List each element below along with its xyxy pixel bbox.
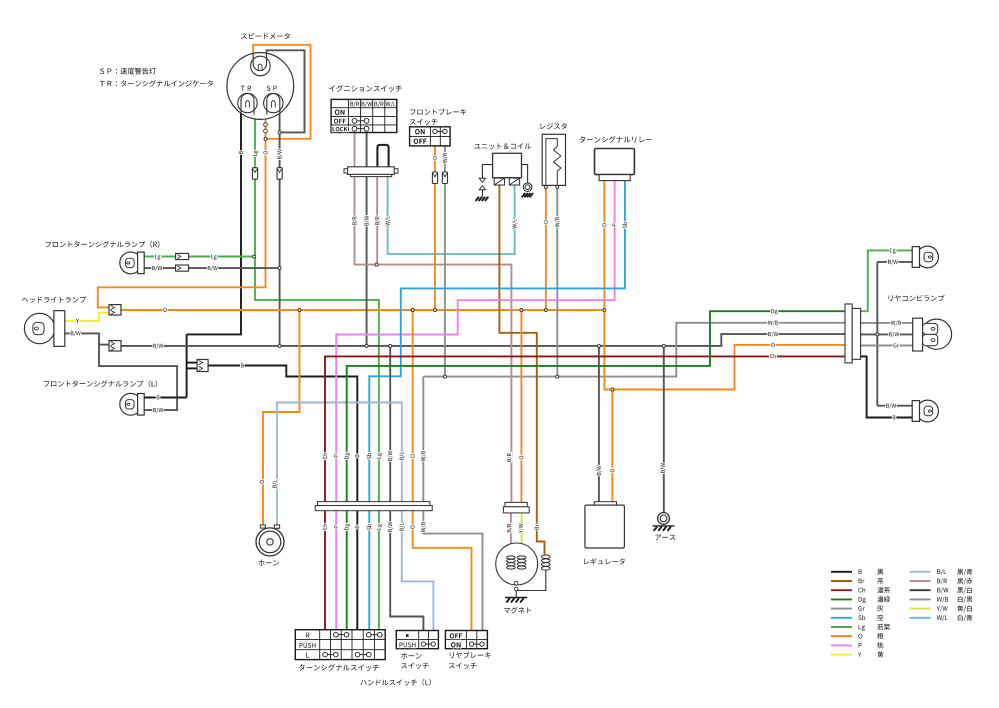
wire B/W ignition [366, 133, 368, 346]
headlight connector O-Y [109, 305, 121, 315]
wire magneto coil3 [516, 570, 546, 590]
speedometer top bulb [251, 56, 271, 76]
turn signal relay box [595, 149, 635, 175]
wire B front turn L [144, 397, 186, 399]
wire W/B resistor [556, 188, 558, 376]
wire Ch net [325, 356, 845, 629]
wire Sb relay net [369, 181, 625, 630]
wire O speedometer loop [253, 45, 310, 139]
resistor terminals [544, 186, 547, 189]
label ignition switch [329, 85, 402, 92]
connector bullet O brake [432, 172, 437, 184]
wire B front turn L vertical [186, 334, 188, 397]
label front turn L [44, 380, 157, 387]
wire P relay net [336, 181, 614, 630]
label speedometer [241, 33, 290, 39]
wire B/W earth [663, 346, 665, 513]
front turn signal lamp L [120, 393, 142, 415]
connector B left [197, 360, 208, 372]
speedometer SP bulb [264, 93, 283, 112]
magneto coil 1 [507, 556, 516, 559]
wire B rear [861, 356, 913, 417]
wire B/W bus [121, 334, 845, 346]
magneto connector [505, 502, 527, 506]
speedometer TR bulb [238, 93, 257, 112]
wire B/R ignition net [355, 176, 512, 502]
horn switch table [396, 631, 438, 649]
unit coil hatched terminals [494, 178, 504, 185]
speedometer TR SP text [241, 86, 251, 91]
ground unit coil left [476, 197, 479, 201]
label magneto [504, 607, 531, 614]
turn signal relay connector [599, 175, 630, 181]
connector bullet W/B brake [442, 172, 447, 184]
wire Y headlight [65, 313, 109, 321]
wire B/W rear net [861, 333, 913, 335]
label SP note [100, 68, 156, 75]
wire B net [208, 366, 357, 630]
label handle switch [360, 679, 430, 686]
ground unit coil right [522, 193, 525, 197]
wire B/W headlight [65, 333, 177, 410]
connector bullet Lg lampR [176, 253, 189, 259]
headlight lamp [24, 313, 54, 343]
regulator box [594, 502, 616, 505]
label resistor [541, 123, 567, 129]
wire O rear brake branch [413, 310, 472, 631]
resistor box [542, 134, 565, 185]
wire O magneto branch [520, 310, 522, 502]
connector bullet B/W lampR [176, 265, 189, 271]
turn signal switch row labels [306, 633, 310, 638]
resistor element [546, 139, 557, 186]
rear turn signal lamp L [917, 400, 939, 422]
rear turn signal lamp R [917, 246, 939, 268]
label turn signal relay [580, 136, 653, 143]
ignition row labels [335, 110, 345, 115]
label headlight [22, 296, 86, 303]
wire W/B rear brake branch [423, 377, 482, 631]
label front brake 2 [410, 119, 438, 125]
wire B/W rear turn L [877, 405, 912, 407]
label rear brake switch 2 [449, 663, 477, 669]
front turn signal lamp R [120, 252, 142, 274]
rear brake switch labels [450, 633, 462, 638]
wire labels [155, 254, 160, 259]
wire Lg rear [861, 250, 913, 311]
wire Br unit coil [499, 185, 544, 555]
label earth [655, 535, 675, 541]
legend swatches [831, 571, 852, 573]
wire Lg speedometer to switch [255, 113, 379, 630]
ignition connector bar [344, 169, 398, 173]
label turn signal switch [299, 664, 379, 671]
horn switch contacts [421, 642, 425, 646]
main harness connector [318, 502, 430, 506]
ignition header labels [350, 102, 359, 108]
front brake switch table [410, 127, 451, 146]
wire B/W front turn R [144, 267, 279, 269]
wire B/W rear turn R [877, 261, 912, 263]
rear tail lamp [921, 319, 951, 349]
unit coil left arrows [482, 165, 492, 179]
horn switch labels [406, 634, 409, 637]
connector bullet pair O speedo [264, 123, 268, 127]
wire B/L horn [277, 403, 433, 631]
ground magneto [505, 597, 527, 599]
wire magneto coil bottoms [511, 569, 516, 581]
wire Gr rear [861, 345, 913, 347]
magneto body [496, 543, 538, 585]
wire B/R ignition 1 [354, 133, 356, 167]
wire B/W headlight stub [99, 344, 109, 346]
wire B/W regulator [598, 346, 600, 502]
turn signal switch table [295, 630, 385, 660]
wire B/W speedometer [279, 113, 281, 346]
unit coil right bolt [522, 165, 528, 183]
label rear combination lamp [889, 295, 945, 301]
magneto coil 3 [541, 555, 550, 559]
wire magneto coil2 lead [521, 544, 523, 556]
rear brake switch contacts [469, 642, 473, 646]
front brake switch labels [415, 129, 425, 134]
legend names [877, 569, 883, 575]
label horn [259, 560, 280, 566]
magneto terminal circles [514, 582, 518, 586]
label horn switch 2 [401, 663, 429, 669]
wire B speedometer [187, 113, 241, 334]
wire O regulator branch [611, 390, 613, 502]
label front brake 1 [410, 108, 466, 115]
ground earth [653, 525, 675, 527]
label horn switch 1 [401, 653, 422, 659]
wire W/B front brake [444, 146, 446, 377]
connector bullet B/W speedo [277, 168, 282, 180]
junction nodes [253, 255, 256, 258]
earth bolt [658, 513, 670, 525]
wire B/W horn switch [390, 346, 423, 631]
wire W/B rear [861, 322, 913, 324]
wire Dg net [347, 311, 845, 630]
wire B/R ignition 2 [376, 176, 378, 264]
wire O front brake [434, 146, 436, 310]
rear brake switch table [445, 631, 487, 649]
wire Lg front turn R [144, 256, 254, 258]
label front turn R [46, 241, 160, 248]
ignition contact circles [352, 118, 357, 123]
wire Y/W magneto [521, 513, 523, 544]
rear connector [845, 304, 852, 363]
label unit coil [474, 143, 531, 149]
turn signal switch contacts [334, 632, 339, 637]
wire O speedometer [98, 113, 266, 307]
connector bullet Lg [252, 168, 257, 180]
label regulator [584, 558, 625, 565]
label rear brake switch 1 [450, 652, 491, 659]
wire O resistor [545, 188, 547, 310]
label TR note [100, 80, 213, 87]
wire O relay net [604, 181, 845, 390]
ignition switch table [331, 99, 397, 132]
horn body [260, 525, 265, 528]
wire O horn branch [263, 310, 300, 525]
wire magneto coil1 lead [510, 544, 512, 556]
wire B/R magneto [510, 513, 512, 544]
front brake contact circles [433, 129, 437, 133]
wire magneto earth lead [515, 591, 517, 598]
wire B/W rear vertical [876, 262, 878, 406]
headlight connector B/W [109, 341, 121, 351]
wire B/W speedometer loop [267, 50, 305, 132]
speedometer body [227, 53, 294, 120]
wire W/B bus [423, 323, 845, 377]
ignition key [377, 145, 388, 167]
unit and coil box [493, 153, 522, 177]
wire O bus [121, 309, 604, 311]
wire B connector stubs [187, 362, 198, 364]
wire W/L ignition-unit [388, 176, 515, 254]
magneto coil 2 [517, 556, 526, 559]
